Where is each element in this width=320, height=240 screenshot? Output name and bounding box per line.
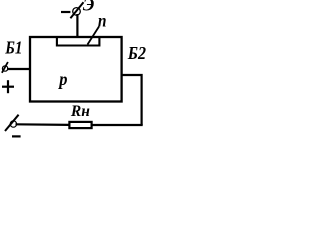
resistor Rн body — [69, 122, 91, 128]
emitter wire — [76, 14, 78, 38]
wire bottom left segment (terminal to resistor) — [16, 123, 70, 126]
svg-text:Э: Э — [83, 0, 94, 15]
n-region emitter inset rectangle — [57, 37, 100, 46]
terminal bottom (circle with slash) — [5, 115, 19, 131]
minus sign (emitter, top) — [61, 11, 70, 13]
minus sign (bottom) — [12, 135, 21, 137]
plus sign (Б1) — [2, 80, 14, 93]
svg-text:Б2: Б2 — [127, 43, 146, 63]
wire Б2: stub right, down, to bottom corner — [122, 75, 142, 125]
wire from terminal Б1 to body — [7, 68, 31, 70]
terminal Э (circle with slash) — [70, 2, 83, 18]
n pointer slash — [88, 27, 100, 45]
svg-text:Б1: Б1 — [4, 38, 22, 58]
terminal Б1 (circle with slash) — [2, 62, 8, 73]
wire bottom right segment (resistor to corner) — [92, 124, 143, 126]
svg-text:Rн: Rн — [70, 103, 90, 120]
p-region body rectangle (base bar) — [30, 37, 122, 102]
svg-text:p: p — [57, 69, 67, 89]
